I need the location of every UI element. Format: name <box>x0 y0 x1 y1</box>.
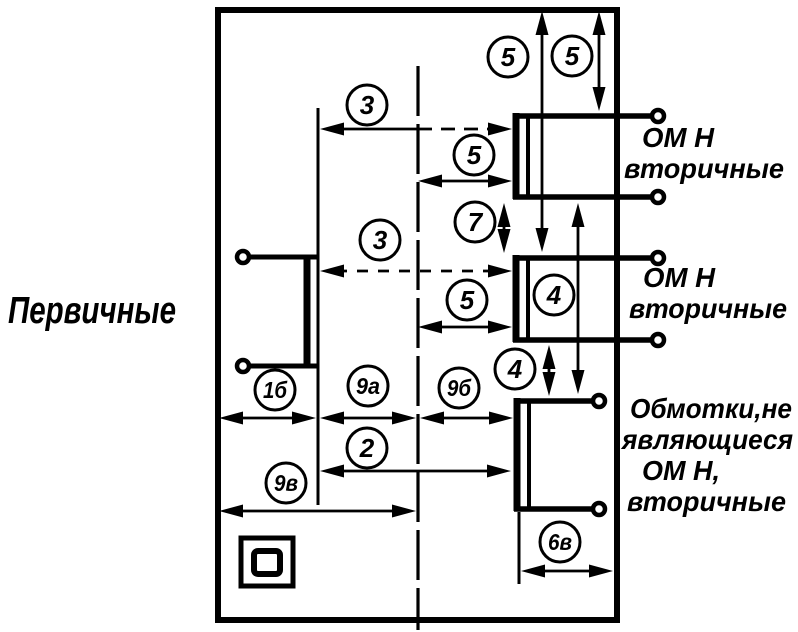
svg-text:Обмотки,не: Обмотки,не <box>630 393 792 424</box>
label 5 top-right <box>552 36 592 76</box>
extension line at x=318 <box>317 108 320 505</box>
dimension 5 left vertical <box>536 11 549 252</box>
label 5 top-left <box>488 37 528 77</box>
dimension 5 right vertical <box>593 11 606 111</box>
label 4 lower <box>495 349 535 389</box>
dimension 3 top <box>320 123 512 136</box>
dimension 6v span <box>521 565 613 578</box>
winding W3 bottom lead <box>514 503 605 515</box>
svg-text:являющиеся: являющиеся <box>620 424 793 455</box>
text OM N 3 <box>642 455 720 486</box>
dimension 4 long vertical <box>572 203 585 394</box>
winding W1 top lead <box>513 110 664 122</box>
svg-text:7: 7 <box>468 207 484 237</box>
svg-text:Первичные: Первичные <box>8 290 176 332</box>
label 4 upper <box>534 275 574 315</box>
dimension 5 middle horizontal <box>418 321 512 334</box>
label 9b <box>439 368 479 408</box>
dimension 3 middle <box>320 265 512 278</box>
dimension 9b span <box>420 412 513 425</box>
winding W3 top lead <box>514 395 605 407</box>
text vtorichnye 2 <box>629 293 787 324</box>
dimension 5 upper horizontal <box>418 175 512 188</box>
svg-text:4: 4 <box>546 280 562 310</box>
text OM N 1 <box>642 122 715 153</box>
svg-text:2: 2 <box>359 433 375 463</box>
winding W1 bottom lead <box>513 191 664 203</box>
svg-text:вторичные: вторичные <box>624 153 784 184</box>
dimension 2 span <box>320 465 511 478</box>
primary winding bar <box>304 257 311 366</box>
dimension 4 short vertical <box>543 345 556 396</box>
svg-text:6в: 6в <box>548 529 572 555</box>
svg-text:ОМ Н: ОМ Н <box>643 262 716 293</box>
winding W1 bar <box>516 113 528 199</box>
winding W2 bar <box>516 255 528 342</box>
svg-text:3: 3 <box>360 90 375 120</box>
text Pervichnye <box>8 290 176 332</box>
winding W3 bar <box>517 398 529 511</box>
double insulation symbol <box>241 538 293 586</box>
label 3 middle <box>360 220 400 260</box>
svg-text:4: 4 <box>507 354 523 384</box>
coil former outline <box>218 10 617 620</box>
label 7 <box>455 202 495 242</box>
label 2 <box>347 428 387 468</box>
extension line below winding W3 <box>518 512 521 584</box>
svg-text:5: 5 <box>501 42 516 72</box>
label 1b <box>255 370 295 410</box>
svg-text:9а: 9а <box>356 373 380 399</box>
svg-text:9б: 9б <box>447 375 472 401</box>
core centerline (dash-dot) <box>416 66 419 630</box>
winding W2 bottom lead <box>513 334 664 346</box>
svg-text:ОМ Н: ОМ Н <box>642 122 715 153</box>
svg-text:вторичные: вторичные <box>629 293 787 324</box>
label 9v <box>266 463 306 503</box>
label 3 top <box>347 85 387 125</box>
svg-text:9в: 9в <box>274 470 298 496</box>
svg-text:ОМ Н,: ОМ Н, <box>642 455 720 486</box>
svg-text:вторичные: вторичные <box>627 486 786 517</box>
winding W2 top lead <box>513 252 664 264</box>
label 6v <box>540 522 580 562</box>
svg-text:5: 5 <box>460 285 475 315</box>
text OM N 2 <box>643 262 716 293</box>
text Obmotki ne <box>630 393 792 424</box>
dimension 1b span <box>219 412 316 425</box>
svg-text:3: 3 <box>373 225 388 255</box>
dimension 7 vertical <box>498 203 511 253</box>
svg-text:5: 5 <box>467 140 482 170</box>
primary top lead <box>237 251 319 263</box>
text vtorichnye 3 <box>627 486 786 517</box>
svg-text:5: 5 <box>565 41 580 71</box>
primary bottom lead <box>237 360 319 372</box>
dimension 9a span <box>320 412 416 425</box>
text yavlyayushchiesya <box>620 424 793 455</box>
label 9a <box>348 366 388 406</box>
dimension 9v span <box>219 505 416 518</box>
label 5 upper <box>454 135 494 175</box>
svg-text:1б: 1б <box>263 377 288 403</box>
text vtorichnye 1 <box>624 153 784 184</box>
label 5 middle <box>447 280 487 320</box>
